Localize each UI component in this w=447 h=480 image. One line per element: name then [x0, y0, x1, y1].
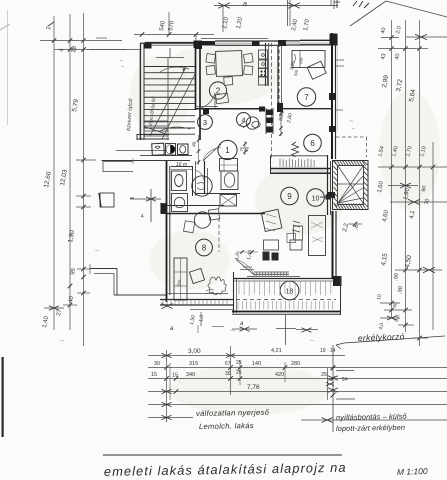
bottom chain line 4 long [148, 404, 447, 406]
top-right corner black blob [330, 34, 338, 46]
shaft border hatch [334, 161, 338, 166]
title underline [103, 454, 342, 456]
balcony left edge [233, 272, 235, 313]
svg-text:420: 420 [275, 372, 284, 378]
room2 door arc bottom [201, 93, 215, 108]
svg-text:3: 3 [203, 118, 207, 127]
dim line corridor 90 260 [280, 111, 282, 136]
room8 wardrobe [174, 258, 187, 300]
kitchen partition between room2 and hall [265, 43, 267, 86]
left chain horizontal ties [40, 40, 122, 42]
top wall right of centre (room7 window) [260, 40, 283, 42]
stair steps [145, 66, 196, 68]
bathroom partition walls [192, 166, 194, 196]
svg-text:Lemolch. lakás: Lemolch. lakás [199, 421, 254, 431]
svg-text:70: 70 [424, 198, 431, 205]
svg-text:18: 18 [286, 289, 294, 296]
svg-text:7: 7 [304, 93, 309, 102]
handwritten mark top [353, 1, 369, 8]
left chain mid ticks [76, 159, 96, 161]
right mid ticks y167 [378, 166, 447, 168]
stairwell bottom landing walls [137, 134, 169, 136]
door swing to balcony [236, 260, 255, 276]
svg-text:9,4: 9,4 [394, 314, 401, 322]
left wall line outside stairs [139, 51, 141, 140]
room8 dashed boundary [218, 205, 220, 252]
room circle 18 balcony [280, 281, 299, 300]
room circle 6 [304, 134, 322, 152]
washbasin circle big [192, 176, 212, 196]
door arc bathroom [195, 170, 204, 180]
top dim line second [134, 34, 214, 36]
bottom chain line 0 [148, 355, 345, 357]
svg-text:8: 8 [202, 244, 207, 253]
room7 bottom wall [283, 108, 331, 110]
roof diagonal lines [350, 1, 386, 26]
left chain ticks top [52, 38, 57, 43]
bottom chain line 5 partial [148, 417, 193, 419]
junction blob hall [203, 108, 209, 114]
svg-text:15: 15 [151, 372, 157, 378]
entry box 3 [178, 144, 189, 155]
dim ticks small near circle1 [198, 135, 200, 165]
stair handrail arcs [160, 67, 189, 72]
small H mark top right [334, 1, 340, 3]
room10 bed vertical [309, 216, 326, 256]
room10 small table [294, 226, 303, 240]
left dimension chain lines [53, 16, 55, 330]
svg-text:9: 9 [287, 192, 292, 201]
hall closet upper [220, 159, 238, 172]
room circle 3 [198, 115, 213, 130]
room8 table circle [194, 212, 210, 228]
right tick line y202 [390, 201, 447, 203]
svg-text:10: 10 [312, 196, 320, 203]
top exterior wall band [145, 42, 196, 44]
svg-text:erkélykorzó: erkélykorzó [358, 331, 405, 343]
svg-text:3,00: 3,00 [188, 348, 201, 355]
small cushion marks [292, 221, 300, 232]
svg-text:4,0: 4,0 [378, 322, 385, 330]
top axis line a [214, 5, 338, 7]
svg-text:30: 30 [154, 361, 160, 367]
svg-text:15: 15 [172, 373, 178, 379]
svg-text:M 1:100: M 1:100 [397, 466, 428, 477]
balcony right corner [333, 276, 342, 286]
wc room fixture [172, 171, 187, 191]
balcony railing hatch [238, 282, 240, 295]
bottom chain line 2 [148, 378, 447, 380]
washing machine [172, 194, 188, 212]
washbasin slashes [239, 121, 249, 128]
heavy ink ticks x333 [328, 376, 338, 381]
svg-text:nyíllásbontás – külső: nyíllásbontás – külső [336, 412, 408, 422]
room2 chairs [206, 54, 216, 64]
stairwell right wall [194, 41, 201, 49]
right tick line y270 [395, 269, 420, 271]
stair centre stringer [167, 58, 169, 140]
hall bottom wall [160, 203, 166, 205]
right tick line y185 [388, 185, 418, 187]
entry meter box 1 [152, 143, 165, 155]
svg-text:30: 30 [225, 371, 231, 377]
shaft pointer black dot [326, 195, 331, 200]
svg-text:6: 6 [310, 139, 315, 148]
svg-text:19: 19 [320, 348, 326, 354]
svg-text:7,76: 7,76 [247, 384, 260, 391]
bottom chain vertical connectors [166, 350, 168, 422]
balcony slab top edge [233, 278, 340, 280]
entry corridor line [140, 155, 192, 157]
stair lower extra steps [145, 120, 169, 122]
svg-text:340: 340 [186, 372, 195, 378]
room circle 9 [281, 187, 299, 205]
stair landing diagonal [144, 127, 169, 136]
masonry section blocks bathroom wall [266, 110, 273, 116]
room2 bottom wall [195, 108, 262, 110]
room circle 8 [196, 239, 213, 256]
terrace door threshold hatch [256, 272, 258, 277]
door swing hall [203, 144, 221, 161]
bottom chain line 1 [148, 367, 447, 369]
scan edge artifact left [2, 357, 4, 437]
shaft hatched box erkely [333, 161, 369, 210]
room circle 2 [209, 82, 226, 99]
shaft interior fan lines [338, 166, 363, 203]
bathtub [221, 171, 238, 190]
coat hook comb [279, 159, 281, 168]
room7 bed [292, 51, 325, 68]
stair top landing tee [156, 57, 184, 59]
window marks right wall [336, 59, 344, 61]
right dimension chain verticals [391, 20, 393, 318]
room8 plant squiggle [208, 277, 226, 295]
svg-text:140: 140 [252, 361, 261, 367]
radiator zigzag hall6 [292, 142, 299, 157]
right exterior wall upper [331, 33, 333, 159]
room circle 10 [307, 189, 325, 207]
partition room7 left wall [277, 46, 279, 110]
right exterior wall below shaft [332, 211, 334, 278]
right chain bottom cluster [380, 302, 400, 304]
door jamb black block [161, 204, 167, 215]
erkelykorzo leader line [336, 336, 445, 345]
room9 couch rotated [261, 209, 282, 231]
svg-text:25: 25 [321, 372, 327, 378]
dim drop lines below sill [200, 312, 202, 326]
axis marker below balcony [285, 315, 287, 345]
balcony dashed centre line [236, 299, 336, 301]
balcony bottom edge [232, 311, 341, 313]
svg-text:1,0: 1,0 [198, 314, 205, 322]
smudges texture [60, 60, 355, 341]
dashed line to shaft [336, 136, 367, 138]
room circle 7 [297, 88, 315, 106]
small desk room2 [216, 93, 229, 104]
kitchen counter boxes [259, 50, 268, 59]
entry outside bench [103, 161, 133, 163]
svg-text:90: 90 [421, 185, 428, 192]
tick x54 bottom [49, 306, 59, 311]
svg-text:280: 280 [291, 361, 300, 367]
hall6 lower double wall [270, 168, 331, 170]
outside square planter [100, 193, 114, 207]
entry door cross marks outside [130, 198, 161, 200]
stairwell top wall [140, 42, 196, 44]
axis verticals [222, 6, 224, 32]
stairwell left exterior wall [140, 43, 142, 140]
room circle 5 washbasin [246, 117, 258, 129]
svg-text:válfozatlan nyerjeső: válfozatlan nyerjeső [196, 408, 270, 418]
svg-text:16 m: 16 m [176, 162, 187, 168]
building left wall mid (entry) [116, 150, 166, 152]
bottom chain line 3 776 [148, 391, 447, 393]
room8 rotated square [189, 268, 204, 283]
ticks on x70 chain [68, 284, 73, 289]
svg-text:lopott-zárt erkélyben: lopott-zárt erkélyben [336, 423, 405, 433]
svg-text:67: 67 [225, 361, 231, 367]
room circle 4 [237, 113, 251, 127]
balcony top terrace door lines [254, 271, 289, 273]
entry box 2 black circle [166, 144, 176, 156]
svg-text:4,21: 4,21 [271, 348, 282, 354]
dashed beam lines vertical centre [271, 43, 273, 160]
svg-text:315: 315 [189, 361, 198, 367]
room2 dining table [216, 51, 243, 77]
furniture row bottom rooms [264, 240, 279, 250]
bottom-left building outline step [90, 268, 117, 270]
wall right of hall6 [327, 155, 329, 215]
room8 window sill band [166, 293, 228, 295]
svg-text:25: 25 [236, 370, 242, 376]
hall left wall (room8 wall) [166, 161, 168, 302]
svg-text:1: 1 [225, 146, 230, 155]
room circle 1 [218, 140, 237, 159]
right chain ties and ticks [381, 37, 399, 39]
svg-text:a: a [243, 1, 247, 8]
hall closet lower with X [220, 195, 237, 207]
terrace steps marks below room8 [243, 266, 252, 268]
svg-text:25: 25 [236, 360, 242, 366]
right annotation small lines [336, 370, 354, 372]
stair walk arrows diagonals [150, 67, 186, 136]
top wall dark segment centre [195, 41, 202, 50]
room8 chairs squares [184, 221, 195, 233]
room7 desk rotated [307, 61, 326, 79]
hall6 upper wall and hooks [270, 155, 328, 157]
